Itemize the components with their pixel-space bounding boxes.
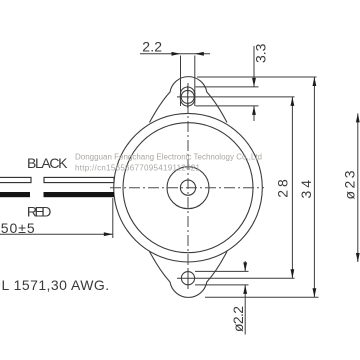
svg-text:28: 28 [275,179,291,198]
svg-text:BLACK: BLACK [27,155,68,171]
svg-text:2.2: 2.2 [142,39,162,55]
svg-text:34: 34 [298,180,314,199]
svg-text:50±5: 50±5 [1,220,35,236]
svg-text:RED: RED [27,204,52,220]
svg-text:ø2.2: ø2.2 [230,306,246,332]
svg-text:UL 1571,30 AWG.: UL 1571,30 AWG. [0,277,110,293]
svg-text:Dongguan Fengchang Electronic: Dongguan Fengchang Electronic Technology… [75,153,262,162]
svg-text:ø23: ø23 [342,170,358,199]
svg-text:http://cn15656677095419112421: http://cn15656677095419112421 [75,164,201,173]
svg-text:3.3: 3.3 [253,43,269,63]
